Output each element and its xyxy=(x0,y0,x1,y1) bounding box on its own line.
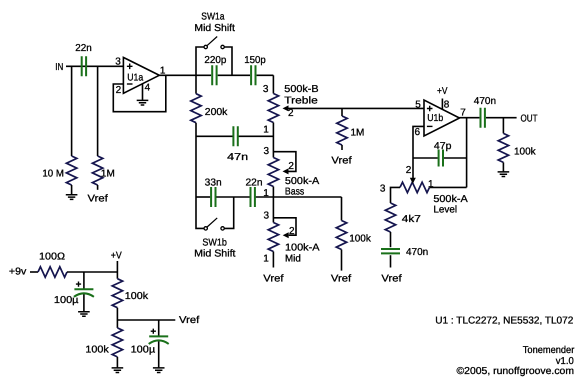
svg-text:3: 3 xyxy=(380,184,386,195)
ground 100u Vref xyxy=(153,368,165,373)
wire 22n to bass pin1 xyxy=(256,196,274,198)
svg-text:470n: 470n xyxy=(474,96,496,107)
wire U1a output xyxy=(159,74,211,76)
svg-text:22n: 22n xyxy=(75,43,92,54)
svg-text:1M: 1M xyxy=(101,168,115,179)
ground U1a pin 4 xyxy=(137,100,149,105)
svg-text:Vref: Vref xyxy=(381,273,401,284)
wire 100ohm to +V xyxy=(67,271,117,273)
svg-text:100k: 100k xyxy=(349,234,372,245)
svg-text:SW1b: SW1b xyxy=(202,238,227,249)
svg-text:U1b: U1b xyxy=(427,113,443,124)
svg-text:1: 1 xyxy=(263,254,269,265)
svg-text:100k-A: 100k-A xyxy=(285,243,320,254)
wire feedback vertical xyxy=(466,118,468,188)
capacitor 47n xyxy=(196,135,233,137)
resistor 100k line2 to Vref xyxy=(341,197,343,221)
resistor 100ohm xyxy=(38,267,67,277)
wire 4k7 to 470n xyxy=(390,232,392,247)
wire 100u to ground xyxy=(83,294,85,311)
svg-text:3: 3 xyxy=(264,210,270,221)
capacitor C 22n input xyxy=(82,56,86,76)
capacitor 150p xyxy=(251,65,255,85)
capacitor 100u filter xyxy=(83,272,85,289)
switch SW1b xyxy=(224,197,233,228)
svg-text:U1 : TLC2272, NE5532, TL072: U1 : TLC2272, NE5532, TL072 xyxy=(435,315,573,326)
svg-text:Treble: Treble xyxy=(284,96,318,107)
svg-text:47p: 47p xyxy=(434,141,452,152)
ground output xyxy=(498,172,510,177)
resistor 10M xyxy=(66,156,76,185)
svg-text:150p: 150p xyxy=(244,55,266,66)
bass wiper loop pin 2 xyxy=(273,152,296,172)
capacitor 33n xyxy=(211,187,215,207)
svg-text:SW1a: SW1a xyxy=(201,12,225,23)
ground 100u filter xyxy=(78,312,90,317)
svg-text:470n: 470n xyxy=(406,247,428,258)
wire 200k bottom down to SW1b xyxy=(196,123,204,229)
svg-text:Mid: Mid xyxy=(285,254,301,265)
wire line2 right to 100k xyxy=(273,196,341,198)
wire between 220p and 150p xyxy=(218,74,250,76)
wire U1b output xyxy=(460,117,480,119)
wire U1a pin2 feedback loop xyxy=(113,75,166,111)
svg-text:+V: +V xyxy=(437,86,448,97)
wire 470n to Vref xyxy=(390,255,392,267)
switch SW1a xyxy=(196,47,204,75)
wire to Vref node xyxy=(116,308,118,328)
resistor 100k upper divider xyxy=(112,279,122,308)
potentiometer 500k-B Treble xyxy=(268,94,278,123)
wire 33n to 22n xyxy=(216,196,249,198)
svg-text:7: 7 xyxy=(460,107,466,118)
wire U1b pin 8 to +V xyxy=(441,99,443,110)
level wiper arrow pin 2 xyxy=(410,178,416,184)
svg-text:Bass: Bass xyxy=(285,187,304,198)
wire Vref rail xyxy=(117,319,175,321)
svg-text:33n: 33n xyxy=(205,178,222,189)
svg-text:500k-A: 500k-A xyxy=(433,194,468,205)
wire to OUT xyxy=(486,117,517,119)
wire 150p to treble xyxy=(257,74,274,76)
svg-text:3: 3 xyxy=(264,146,270,157)
wire IN to U1a pin 3 xyxy=(66,65,123,67)
ground under 10M xyxy=(66,195,78,200)
wire line2 left xyxy=(196,196,210,198)
mid wiper loop pin 2 xyxy=(273,218,296,235)
svg-text:100µ: 100µ xyxy=(54,295,79,306)
svg-text:1: 1 xyxy=(263,125,269,136)
svg-text:1: 1 xyxy=(428,179,434,190)
svg-text:100k: 100k xyxy=(125,291,149,302)
svg-text:3: 3 xyxy=(115,57,121,68)
wire 200k top xyxy=(195,75,197,93)
svg-text:100µ: 100µ xyxy=(131,345,156,356)
svg-text:6: 6 xyxy=(415,127,421,138)
svg-text:+V: +V xyxy=(111,251,122,262)
resistor 200k xyxy=(191,94,201,123)
svg-text:2: 2 xyxy=(288,108,294,119)
wire 100u Vref to ground xyxy=(158,341,160,367)
resistor 4k7 xyxy=(385,203,395,232)
capacitor 470n to Vref xyxy=(381,249,400,253)
svg-text:2: 2 xyxy=(406,165,412,176)
resistor 1M input xyxy=(92,156,102,185)
wire +V vertical xyxy=(116,261,118,279)
wire level pin3 to 4k7 xyxy=(391,187,401,203)
capacitor 220p xyxy=(212,65,216,85)
svg-text:OUT: OUT xyxy=(521,113,538,124)
capacitor 470n output xyxy=(481,108,485,128)
svg-text:8: 8 xyxy=(444,99,450,110)
wire 10M to ground xyxy=(71,185,73,194)
wire 100k to ground xyxy=(502,162,504,171)
svg-text:Mid Shift: Mid Shift xyxy=(194,248,236,259)
treble wiper arrow pin 2 xyxy=(283,105,289,111)
svg-text:2: 2 xyxy=(288,161,294,172)
svg-text:Tonemender: Tonemender xyxy=(523,345,575,356)
wire +9v to 100ohm xyxy=(30,271,38,273)
wire 10M drop xyxy=(71,66,73,156)
svg-text:100k: 100k xyxy=(514,147,537,158)
resistor 1M to Vref xyxy=(341,108,343,116)
wire 1M drop xyxy=(97,66,99,156)
wire mid pin1 to Vref xyxy=(272,252,274,268)
capacitor 22n tone xyxy=(251,187,255,207)
wire treble pin1 down xyxy=(272,123,274,158)
svg-text:220p: 220p xyxy=(204,55,226,66)
svg-text:Level: Level xyxy=(433,205,457,216)
svg-text:22n: 22n xyxy=(246,178,263,189)
op-amp U1a xyxy=(123,57,159,93)
capacitor 100u Vref xyxy=(158,320,160,336)
wire U1b pin 6 stub xyxy=(413,126,424,178)
resistor 100k lower divider xyxy=(112,328,122,357)
wire main to treble pin 3 xyxy=(272,75,274,93)
wire 100k lower to ground xyxy=(116,357,118,368)
svg-text:Vref: Vref xyxy=(263,273,283,284)
wire bass pin1 to line2 xyxy=(272,187,274,223)
svg-text:4: 4 xyxy=(145,82,151,93)
svg-text:Vref: Vref xyxy=(331,273,351,284)
svg-text:47n: 47n xyxy=(227,152,248,163)
svg-text:10 M: 10 M xyxy=(42,168,64,179)
svg-text:2: 2 xyxy=(116,85,122,96)
svg-text:100Ω: 100Ω xyxy=(39,252,66,263)
svg-text:3: 3 xyxy=(263,84,269,95)
svg-text:Vref: Vref xyxy=(331,156,351,167)
op-amp U1b xyxy=(424,100,460,136)
wire treble wiper to U1b pin 5 xyxy=(289,107,425,109)
capacitor 47p feedback xyxy=(413,157,438,159)
resistor 100k output xyxy=(502,118,504,134)
svg-text:1M: 1M xyxy=(351,128,365,139)
svg-text:200k: 200k xyxy=(205,107,229,118)
potentiometer 500k-A Level xyxy=(400,182,430,192)
wire level pin1 xyxy=(430,186,467,188)
svg-text:4k7: 4k7 xyxy=(402,214,422,225)
svg-text:Vref: Vref xyxy=(179,315,199,326)
svg-text:IN: IN xyxy=(55,62,63,73)
ground lower divider xyxy=(112,368,124,373)
wire U1a pin 4 to ground xyxy=(142,84,144,100)
svg-text:+9v: +9v xyxy=(9,267,26,278)
svg-text:©2005, runoffgroove.com: ©2005, runoffgroove.com xyxy=(457,366,575,377)
svg-text:2: 2 xyxy=(289,226,295,237)
svg-text:500k-B: 500k-B xyxy=(284,84,319,95)
wire 1M to Vref xyxy=(97,185,99,190)
svg-text:Vref: Vref xyxy=(88,193,108,204)
svg-text:5: 5 xyxy=(415,99,421,110)
svg-text:100k: 100k xyxy=(85,345,109,356)
svg-text:Mid Shift: Mid Shift xyxy=(194,23,235,34)
svg-text:U1a: U1a xyxy=(127,73,143,84)
